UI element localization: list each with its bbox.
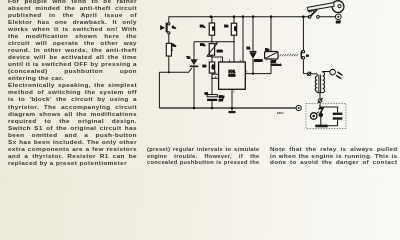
svg-text:84541: 84541 <box>277 112 284 115</box>
wire gate line return to rail <box>158 72 160 108</box>
node pin2 junction <box>211 77 213 79</box>
node D1 top <box>252 15 255 18</box>
diode D1 <box>247 17 263 74</box>
pushbutton Sx <box>160 23 176 34</box>
svg-text:12V: 12V <box>272 62 277 64</box>
wire to condenser <box>320 107 338 112</box>
svg-text:47k: 47k <box>233 26 237 31</box>
wire top rail <box>169 17 310 23</box>
node pot bottom <box>211 56 213 58</box>
left text column <box>8 0 137 168</box>
node C1 rail <box>211 107 214 110</box>
relay Re coil <box>265 17 282 74</box>
node R2 top <box>233 15 236 18</box>
IC1 555 timer <box>219 62 246 89</box>
circuit schematic <box>140 0 400 146</box>
spark plug <box>330 69 343 79</box>
svg-text:555: 555 <box>228 74 235 78</box>
ignition key <box>307 1 344 13</box>
wire bottom rail <box>159 107 295 109</box>
wire gate line to thyristor <box>159 68 191 72</box>
svg-text:100k: 100k <box>217 50 223 53</box>
svg-text:16V: 16V <box>219 100 224 102</box>
svg-text:1: 1 <box>233 92 235 94</box>
svg-text:Th: Th <box>187 55 191 59</box>
resistor R3 <box>203 55 216 73</box>
svg-text:Sx: Sx <box>172 25 176 30</box>
node relay top <box>270 15 273 18</box>
contact breaker <box>318 98 323 107</box>
capacitor C1 <box>205 91 225 108</box>
wire Rx bottom lead <box>168 56 170 72</box>
svg-text:47k: 47k <box>211 64 215 69</box>
svg-text:R2: R2 <box>224 24 228 28</box>
svg-text:R1b: R1b <box>200 43 206 48</box>
bottom right text column <box>270 147 397 167</box>
dashed distributor box <box>306 103 346 128</box>
wire thyristor anode branch <box>194 41 234 43</box>
svg-text:Rx: Rx <box>172 43 176 48</box>
wire R3 bottom to C1 <box>211 73 213 95</box>
node R2 branch <box>233 41 235 43</box>
wire to coil with connector <box>303 72 317 76</box>
resistor Rx <box>166 43 176 56</box>
node R1a top <box>210 15 213 18</box>
terminal bottom left <box>296 105 301 110</box>
svg-text:Re: Re <box>265 48 269 52</box>
wire pin6 stub <box>212 73 219 75</box>
svg-text:R3: R3 <box>203 64 207 68</box>
svg-text:470: 470 <box>170 47 174 52</box>
wire pin7 <box>212 57 223 62</box>
node thyristor cathode rail <box>193 107 196 110</box>
svg-text:re: re <box>306 54 309 57</box>
condenser <box>328 113 343 126</box>
node pin4 top <box>242 15 245 18</box>
wire pin4 <box>242 17 244 62</box>
svg-text:100µ: 100µ <box>219 97 225 99</box>
svg-text:1N4148: 1N4148 <box>254 60 263 63</box>
terminal 12V <box>335 14 341 24</box>
node contact drop <box>302 15 305 18</box>
points arm and cam <box>310 108 323 125</box>
wire pin3 <box>245 73 271 75</box>
relay contact re <box>301 17 309 74</box>
thyristor Th <box>187 42 199 108</box>
node Rx gate junction <box>168 71 170 73</box>
node pin1 rail <box>231 107 234 110</box>
wire pin2 stub <box>212 77 219 79</box>
ground <box>229 108 236 113</box>
svg-text:C1: C1 <box>205 91 209 95</box>
ground in distributor <box>315 125 327 128</box>
svg-text:K 100mA: K 100mA <box>272 64 282 67</box>
resistor R1a <box>200 17 215 44</box>
ignition coil <box>315 72 329 99</box>
bottom middle text column <box>147 147 260 167</box>
preset R1b <box>200 42 223 57</box>
resistor R2 <box>224 17 237 63</box>
key switch S <box>308 10 335 19</box>
svg-text:12V: 12V <box>336 21 341 24</box>
svg-text:D1: D1 <box>247 46 251 50</box>
node breaker junction <box>319 106 321 108</box>
node D1 bottom <box>252 72 254 74</box>
relay mechanical link <box>280 54 299 56</box>
wire Sx to Rx <box>168 34 170 43</box>
svg-text:R1a: R1a <box>200 24 206 29</box>
wire pin1 to rail <box>231 89 233 108</box>
